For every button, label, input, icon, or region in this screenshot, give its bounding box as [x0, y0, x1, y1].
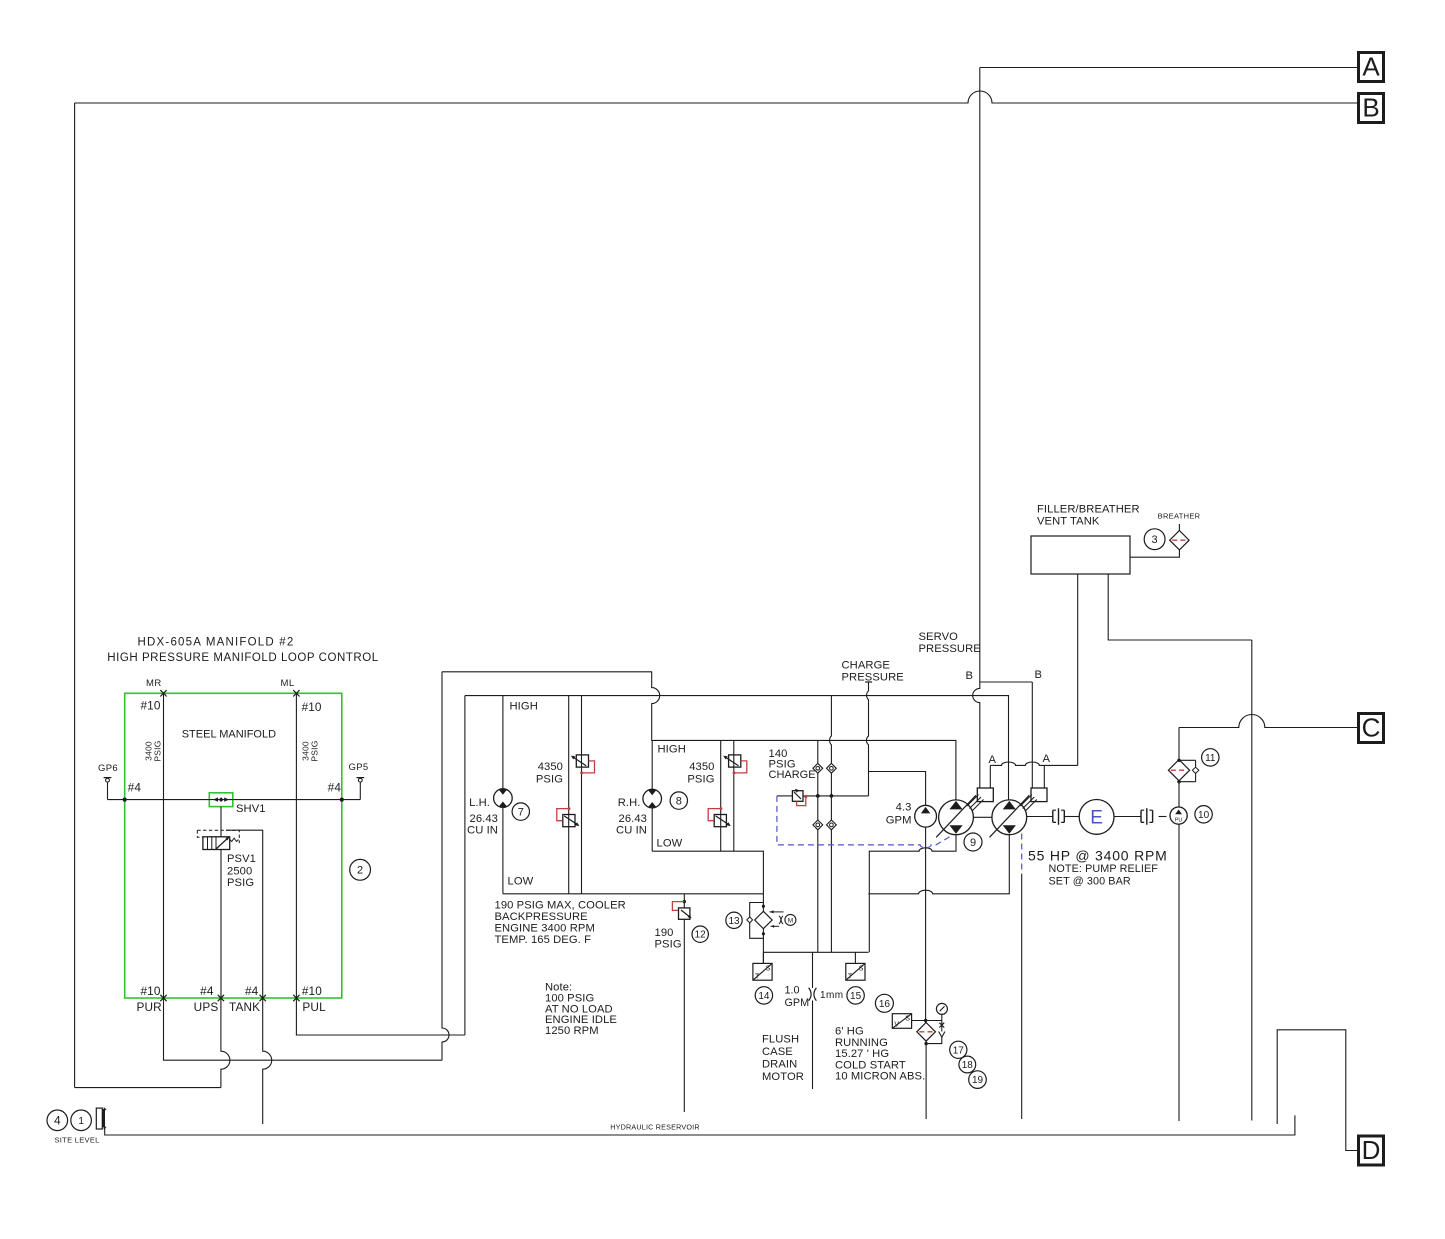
svg-text:MR: MR	[146, 678, 162, 689]
sensor VS 16	[892, 1014, 911, 1029]
port marks on manifold	[160, 690, 166, 696]
svg-text:T: T	[848, 973, 853, 980]
svg-text:PUL: PUL	[302, 1000, 326, 1014]
svg-text:COLD START: COLD START	[835, 1059, 906, 1071]
circle 12	[692, 926, 708, 942]
sight glass	[96, 1108, 102, 1129]
svg-text:PSIG: PSIG	[310, 740, 320, 761]
svg-text:PRESSURE: PRESSURE	[919, 643, 981, 655]
svg-text:HYDRAULIC RESERVOIR: HYDRAULIC RESERVOIR	[610, 1123, 700, 1132]
svg-text:GP6: GP6	[98, 763, 118, 774]
svg-text:B: B	[1034, 669, 1042, 681]
wire pump2 bottom run y=893.8 (hop over x=925.6)	[869, 835, 1010, 894]
wire PUR port down-right run	[164, 998, 443, 1060]
svg-text:BREATHER: BREATHER	[1158, 512, 1201, 521]
wire D suction	[1277, 1030, 1358, 1151]
svg-text:26.43: 26.43	[619, 813, 648, 825]
check valve charge->LH	[827, 763, 837, 773]
wire PUR riser x=441.3	[442, 672, 449, 1060]
svg-text:4.3: 4.3	[896, 802, 912, 814]
svg-text:VENT TANK: VENT TANK	[1037, 516, 1100, 528]
svg-text:PUR: PUR	[136, 1000, 161, 1014]
reservoir outline	[105, 1115, 1295, 1135]
valve SHV1 internals (shuttle arrows)	[213, 797, 218, 801]
gauge 10 (speed pickup)	[1170, 807, 1187, 824]
pump 1 (left variable piston)	[939, 800, 974, 835]
wire LH relief vertical x=581.5	[581, 695, 583, 894]
svg-text:PSIG: PSIG	[655, 939, 682, 951]
valve PSV1	[203, 837, 230, 850]
svg-text:#4: #4	[200, 984, 214, 998]
svg-text:FLUSH: FLUSH	[762, 1034, 799, 1046]
wire UPS vertical (SHV1 to PSV1 to port)	[220, 807, 222, 837]
wire B riser pump1 x=979.8	[973, 682, 980, 788]
blue case drain envelope	[777, 796, 950, 848]
relief valve LH bottom	[563, 815, 575, 827]
relief valve 190 PSIG	[679, 908, 690, 919]
svg-text:GPM: GPM	[886, 815, 912, 827]
svg-text:LOW: LOW	[508, 876, 534, 888]
relief valve LH top 4350 PSIG	[576, 755, 588, 767]
wire check riser x=831.4 (LH high to case line, jog over y=740.4)	[830, 695, 832, 763]
wire charge pump output branch y=771.5	[869, 772, 926, 806]
svg-text:SET @ 300 BAR: SET @ 300 BAR	[1049, 876, 1131, 888]
svg-text:RUNNING: RUNNING	[835, 1037, 888, 1049]
wire A line	[980, 67, 1359, 69]
check valve case->x831	[827, 820, 837, 830]
svg-text:MOTOR: MOTOR	[762, 1071, 804, 1083]
servo link strokes pump2	[1020, 795, 1032, 807]
svg-text:17: 17	[953, 1045, 965, 1056]
svg-text:CU IN: CU IN	[616, 825, 647, 837]
breather line from tank	[1130, 550, 1179, 557]
svg-text:BACKPRESSURE: BACKPRESSURE	[495, 911, 588, 923]
wire pump1 bottom run	[869, 835, 956, 953]
wire suction below filter	[925, 1041, 927, 1119]
blue case drain pump2	[1021, 834, 1023, 874]
svg-text:S: S	[766, 965, 771, 972]
svg-text:#4: #4	[328, 781, 342, 795]
wire charge line y=795.9	[777, 795, 793, 797]
circle 10 label	[1195, 806, 1212, 823]
servo port block pump1	[977, 788, 993, 802]
svg-text:DRAIN: DRAIN	[762, 1059, 797, 1071]
motor 7 L.H.	[494, 789, 513, 808]
wire TANK line from PSV1	[226, 830, 263, 998]
svg-text:GPM: GPM	[785, 997, 810, 1009]
vacuum gauge	[936, 1003, 947, 1014]
svg-text:18: 18	[962, 1060, 974, 1071]
svg-text:B: B	[1362, 93, 1379, 123]
manifold HDX-605A green enclosure	[125, 693, 342, 998]
svg-text:190 PSIG MAX, COOLER: 190 PSIG MAX, COOLER	[495, 900, 626, 912]
svg-text:M: M	[788, 917, 793, 924]
svg-text:CU IN: CU IN	[467, 825, 498, 837]
svg-text:#10: #10	[302, 700, 322, 714]
svg-text:L.H.: L.H.	[469, 797, 490, 809]
pump charge 4.3 GPM	[915, 805, 937, 827]
gauge point GP5	[359, 782, 361, 800]
wire servo riser x=980	[979, 68, 981, 683]
svg-text:SERVO: SERVO	[919, 631, 959, 643]
relief valve RH bottom	[714, 815, 726, 827]
svg-text:8: 8	[676, 795, 682, 807]
svg-text:16: 16	[879, 999, 891, 1010]
wire UPS drop with jog over y=1059.7	[221, 998, 230, 1088]
wire TANK drop with jog, ends in reservoir	[263, 998, 272, 1124]
svg-text:190: 190	[655, 927, 674, 939]
svg-text:1: 1	[78, 1116, 84, 1127]
svg-text:HIGH: HIGH	[658, 744, 686, 756]
wire left outer drop x=74.6	[74, 103, 76, 1088]
circle 8	[670, 792, 687, 809]
svg-text:12: 12	[695, 930, 707, 941]
node B (remote port box)	[1359, 94, 1384, 123]
wire LH relief vertical x=568.7	[568, 695, 570, 894]
svg-text:ENGINE 3400 RPM: ENGINE 3400 RPM	[495, 923, 595, 935]
wire #4 gauge line GP6-GP5	[108, 799, 361, 801]
circle 11	[1202, 749, 1219, 766]
circle 4	[47, 1110, 68, 1131]
svg-text:STEEL MANIFOLD: STEEL MANIFOLD	[182, 728, 276, 740]
circles 17 18 19	[950, 1041, 967, 1058]
svg-text:PSIG: PSIG	[687, 774, 714, 786]
svg-text:#10: #10	[141, 984, 161, 998]
svg-text:PSIG: PSIG	[153, 740, 163, 761]
svg-text:NOTE: PUMP RELIEF: NOTE: PUMP RELIEF	[1049, 863, 1159, 875]
wire RH-LOW bottom y=851.2	[652, 851, 763, 902]
svg-text:V: V	[894, 1022, 899, 1029]
wire charge pressure drop x=868.5 (jogs over y=695.3 and y=740.4)	[865, 681, 872, 683]
wire B line (hop over servo riser)	[75, 91, 1359, 103]
servo link strokes pump1	[967, 795, 979, 807]
svg-text:SITE LEVEL: SITE LEVEL	[55, 1136, 100, 1145]
circle 9	[964, 833, 982, 851]
wire pump1-pump2 link	[973, 816, 992, 818]
svg-text:HIGH PRESSURE MANIFOLD LOOP CO: HIGH PRESSURE MANIFOLD LOOP CONTROL	[107, 652, 378, 664]
svg-text:R.H.: R.H.	[618, 797, 641, 809]
relief valve RH top 4350 PSIG	[729, 755, 741, 767]
wire B branch y=682	[980, 681, 1033, 683]
cooler 13 diamond w/ fan	[755, 911, 772, 928]
filler/breather vent tank	[1031, 536, 1130, 574]
gauge point GP6	[107, 782, 109, 800]
svg-text:HIGH: HIGH	[510, 701, 538, 713]
wire return drop x=1251.8	[1251, 640, 1253, 1121]
wire LH motor branch x=502.9	[502, 695, 504, 789]
svg-text:FILLER/BREATHER: FILLER/BREATHER	[1037, 504, 1140, 516]
svg-text:UPS: UPS	[194, 1000, 219, 1014]
wire C line y=727.5 (hop over x=1251.8)	[1179, 715, 1359, 728]
svg-text:4350: 4350	[689, 761, 714, 773]
cooler bypass bracket	[750, 903, 764, 939]
wire charge suction drop x=925.6 (jogs over y=851.2, y=893.8)	[925, 827, 927, 1023]
wire PUL riser x=464.9	[464, 696, 466, 1035]
svg-text:GP5: GP5	[349, 762, 369, 773]
wire gauge10 drop to reservoir	[1178, 824, 1180, 1121]
wire ML vertical	[295, 693, 297, 998]
svg-text:PSIG: PSIG	[536, 774, 563, 786]
svg-text:6' HG: 6' HG	[835, 1026, 864, 1038]
bypass check with x	[941, 1021, 943, 1032]
motor 8 R.H.	[643, 789, 662, 808]
svg-text:3: 3	[1152, 534, 1158, 546]
svg-text:ML: ML	[281, 678, 295, 689]
svg-text:TEMP. 165 DEG. F: TEMP. 165 DEG. F	[495, 934, 592, 946]
svg-text:2: 2	[357, 865, 363, 877]
wire drop to cooler x=763.4	[762, 903, 764, 912]
check valve charge->RH	[813, 763, 823, 773]
svg-text:#4: #4	[128, 781, 142, 795]
svg-text:#10: #10	[141, 699, 161, 713]
wire pump2 case drain drop x=1021.7	[1021, 874, 1023, 1119]
coupling pump2-motor	[1027, 816, 1053, 818]
wire PUL / LH-HIGH / pump2 top line y=695.3 (hops at x=651.7, x=979.8)	[465, 696, 1009, 801]
svg-text:A: A	[1362, 52, 1380, 82]
breather filter diamond	[1170, 531, 1189, 550]
wire check riser x=817.8 (RH high to case line)	[817, 740, 819, 763]
svg-text:#10: #10	[302, 984, 322, 998]
coupling motor-gauge	[1114, 816, 1141, 818]
circle 13	[726, 912, 742, 928]
node A (remote port box)	[1359, 53, 1384, 82]
circle 1	[71, 1110, 92, 1131]
svg-text:14: 14	[758, 991, 770, 1002]
svg-text:10 MICRON ABS.: 10 MICRON ABS.	[835, 1071, 925, 1083]
wire LH-LOW bottom y=893.8	[503, 893, 764, 895]
svg-text:11: 11	[1205, 753, 1216, 764]
svg-text:55 HP @ 3400 RPM: 55 HP @ 3400 RPM	[1028, 848, 1168, 864]
svg-text:#4: #4	[245, 984, 259, 998]
svg-text:10: 10	[1198, 810, 1210, 821]
svg-text:PU: PU	[1175, 817, 1183, 823]
svg-text:E: E	[1090, 808, 1103, 829]
motor E electric	[1064, 816, 1079, 818]
node D (remote port box)	[1359, 1136, 1384, 1165]
wire 190 relief drop x=684.3	[683, 894, 685, 908]
svg-text:7: 7	[518, 806, 524, 818]
wire RH-HIGH / pump1 top line y=740.4	[652, 740, 956, 800]
wire A riser pump1 x=990.3	[989, 765, 991, 788]
wire PUL port down-right run (hop over x=441.3)	[296, 998, 465, 1035]
wire A line y=765.4 (hops x=1008.5, x=1032.3)	[990, 762, 1077, 765]
valve SHV1 green box	[209, 793, 233, 807]
wire MR vertical	[163, 693, 165, 998]
svg-text:C: C	[1362, 713, 1381, 743]
circle 16	[875, 994, 893, 1012]
svg-text:1.0: 1.0	[785, 985, 800, 997]
svg-text:15.27 ' HG: 15.27 ' HG	[835, 1048, 889, 1060]
sensor TS 15	[854, 952, 856, 963]
svg-text:PRESSURE: PRESSURE	[842, 672, 904, 684]
relief valve 140 PSIG charge	[792, 791, 803, 802]
orifice 1mm drop x=812.5	[812, 952, 814, 988]
wire tank leg2 x=1108.2	[1108, 574, 1252, 640]
svg-text:19: 19	[972, 1075, 984, 1086]
wire A riser pump2 x=1044.3	[1043, 765, 1045, 788]
circle 3	[1144, 529, 1165, 550]
suction filter diamond	[925, 1023, 927, 1041]
wire RH motor branch x=652.2	[651, 740, 653, 789]
svg-text:TANK: TANK	[229, 1000, 260, 1014]
wire RH relief vertical x=720.7	[720, 740, 722, 851]
svg-text:4: 4	[54, 1114, 61, 1128]
svg-text:15: 15	[850, 991, 862, 1002]
svg-text:13: 13	[728, 916, 740, 927]
svg-text:S: S	[859, 965, 864, 972]
circle 7	[512, 803, 529, 820]
svg-text:1250 RPM: 1250 RPM	[545, 1025, 599, 1037]
wire tank leg x=1077.7	[1077, 574, 1079, 765]
svg-text:PSIG: PSIG	[227, 877, 254, 889]
svg-text:CASE: CASE	[762, 1046, 793, 1058]
circle 14	[755, 987, 772, 1004]
svg-text:HDX-605A MANIFOLD #2: HDX-605A MANIFOLD #2	[138, 637, 295, 649]
wire B riser pump2 x=1032.3	[1031, 682, 1033, 788]
filter 11 with bypass check	[1179, 759, 1196, 761]
sensor TS 14	[762, 952, 764, 963]
svg-text:PSV1: PSV1	[227, 853, 256, 865]
check valve case->x817	[813, 820, 823, 830]
svg-text:SHV1: SHV1	[236, 803, 266, 815]
pump 2 (right variable piston)	[992, 800, 1027, 835]
svg-text:9: 9	[970, 837, 976, 849]
svg-text:S: S	[905, 1016, 910, 1023]
svg-text:A: A	[1042, 753, 1050, 765]
wire PUR top run y=671.8	[442, 672, 660, 740]
svg-text:CHARGE: CHARGE	[842, 660, 890, 672]
node C (remote port box)	[1359, 714, 1384, 743]
wire UPS bottom run	[75, 1087, 221, 1089]
svg-text:2500: 2500	[227, 866, 252, 878]
svg-text:T: T	[755, 973, 760, 980]
svg-text:26.43: 26.43	[470, 813, 499, 825]
wire RH relief vertical x=733.8	[733, 740, 735, 851]
circle 15	[847, 987, 864, 1004]
wire filter11 to C corner	[1178, 728, 1180, 760]
svg-text:B: B	[965, 670, 973, 682]
wire gauge10 to filter11	[1178, 782, 1180, 807]
wire case/flush line y=952.3	[763, 951, 868, 953]
svg-text:A: A	[988, 754, 996, 766]
fan arrows + motor M	[770, 911, 784, 913]
svg-text:D: D	[1362, 1135, 1381, 1165]
svg-text:1mm: 1mm	[820, 990, 843, 1001]
svg-text:CHARGE: CHARGE	[769, 769, 816, 781]
svg-text:4350: 4350	[538, 761, 563, 773]
svg-text:LOW: LOW	[657, 838, 683, 850]
servo port block pump2	[1031, 788, 1047, 802]
